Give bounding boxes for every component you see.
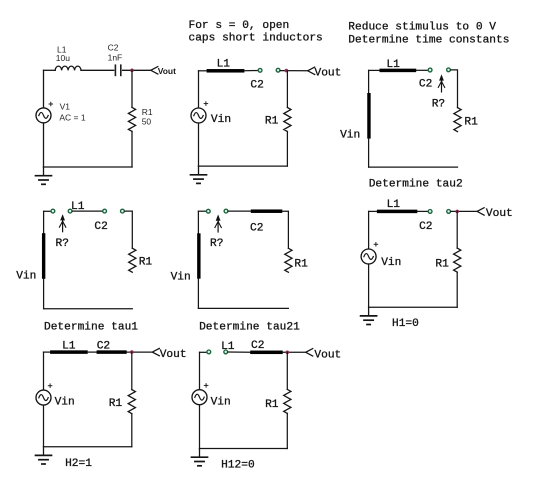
svg-text:C2: C2 — [108, 43, 119, 53]
wire: L1 to C2 terminal — [244, 70, 257, 72]
wire: bottom return net — [198, 307, 288, 309]
svg-text:L1: L1 — [217, 59, 231, 71]
svg-text:L1: L1 — [386, 59, 400, 71]
svg-text:C2: C2 — [250, 223, 263, 235]
resistor R1 — [454, 248, 461, 272]
wire: Vin to ground node — [43, 405, 45, 447]
wire: bottom return net — [200, 448, 288, 450]
inductor L1 — [55, 66, 81, 70]
wire: top-left corner to L1 terminal — [198, 210, 206, 212]
wire: R1 to bottom net — [286, 132, 288, 167]
wire: Vin to ground node — [368, 264, 370, 307]
wire: C2 bar to R1 top — [282, 211, 288, 248]
wire: L1 bar to C2 bar — [88, 351, 97, 353]
wire: Vin bar to bottom net — [197, 279, 199, 309]
svg-text:Reduce stimulus to 0 V: Reduce stimulus to 0 V — [348, 22, 496, 34]
inductor L1 (shorted bar) — [207, 69, 245, 73]
wire: top-left corner to L1 — [369, 210, 378, 212]
svg-text:Vin: Vin — [381, 257, 401, 269]
terminal: C2 open lead 2 — [447, 210, 451, 214]
wire: Vout node down to R1 — [131, 352, 133, 390]
svg-text:H12=0: H12=0 — [221, 459, 255, 471]
inductor L1 (shorted bar) — [50, 350, 88, 354]
wire: left vertical corner to Vin bar — [197, 211, 199, 233]
svg-text:C2: C2 — [251, 340, 264, 352]
voltage source Vin — [361, 249, 376, 264]
svg-text:R1: R1 — [435, 258, 449, 270]
wire: bottom return net — [44, 166, 133, 168]
wire: left vertical corner to Vin bar — [368, 70, 370, 93]
svg-text:R?: R? — [432, 99, 445, 111]
terminal: C2 open lead 2 — [447, 68, 451, 72]
Vin plus polarity mark — [48, 384, 52, 388]
wire: left vertical corner to Vin — [199, 352, 201, 389]
wire: C2 lead to R1 top — [125, 211, 133, 248]
svg-text:R1: R1 — [464, 117, 478, 129]
svg-text:Vout: Vout — [158, 66, 176, 76]
terminal: L1 open lead 1 — [206, 209, 210, 213]
ground — [36, 447, 52, 464]
svg-text:For s = 0, open: For s = 0, open — [189, 20, 290, 32]
node Vout junction dot — [455, 210, 459, 214]
svg-text:R1: R1 — [142, 107, 153, 117]
ground — [191, 166, 207, 183]
resistor R1 — [129, 248, 136, 272]
wire: C2 lead to Vout tap — [280, 70, 307, 72]
wire: R1 to bottom net — [286, 413, 288, 448]
svg-text:C2: C2 — [419, 221, 432, 233]
wire: L1 lead to C2 bar — [228, 210, 251, 212]
wire: top-left corner to L1 — [369, 69, 380, 71]
wire: Vout node down to R1 — [456, 211, 458, 248]
terminal: L1 open lead 2 — [224, 209, 228, 213]
svg-text:Vin: Vin — [16, 270, 36, 282]
terminal: C2 open lead 2 — [121, 209, 125, 213]
terminal: C2 open lead 1 — [428, 210, 432, 214]
wire: L1 lead to C2 bar — [228, 351, 250, 353]
svg-text:H1=0: H1=0 — [392, 318, 419, 330]
wire: C2 bar to Vout tap — [283, 351, 306, 353]
wire: Vin bar to bottom net — [368, 139, 370, 168]
svg-text:R1: R1 — [265, 115, 279, 127]
svg-text:Determine time constants: Determine time constants — [348, 35, 509, 47]
wire: Vout node down to R1 — [286, 352, 288, 389]
svg-text:Determine tau21: Determine tau21 — [199, 322, 300, 334]
wire: C2 bar to Vout tap — [127, 351, 153, 353]
resistor R1 — [128, 107, 135, 131]
voltage source Vin — [192, 390, 207, 405]
svg-text:Determine tau2: Determine tau2 — [369, 178, 463, 190]
wire: bottom return net — [199, 165, 288, 167]
svg-text:10u: 10u — [56, 53, 70, 63]
Vout output tap arrow — [152, 348, 159, 355]
inductor L1 (shorted bar) — [380, 69, 417, 73]
wire: left vertical corner to Vin — [43, 352, 45, 390]
voltage source V1 — [36, 108, 51, 123]
svg-text:Vout: Vout — [160, 349, 187, 361]
capacitor C2 — [115, 65, 120, 75]
source Vin zeroed (short bar) — [42, 233, 45, 279]
svg-text:L1: L1 — [62, 341, 76, 353]
svg-text:R1: R1 — [265, 399, 279, 411]
node Vout junction dot — [130, 69, 134, 73]
probe arrow R? looking into L1 port — [215, 215, 221, 233]
svg-text:Vin: Vin — [340, 130, 360, 142]
wire: C2 lead to R1 top — [451, 70, 458, 108]
wire: Vin to ground node — [199, 405, 201, 449]
Vout output tap arrow — [477, 208, 484, 215]
svg-text:C2: C2 — [250, 80, 263, 92]
wire: top-left corner to L1 — [44, 351, 51, 353]
Vin plus polarity mark — [204, 102, 208, 106]
terminal: C2 open lead 1 — [103, 209, 107, 213]
capacitor C2 (shorted bar) — [97, 350, 127, 354]
caption: reduce stimulus instructions — [348, 22, 509, 47]
svg-text:C2: C2 — [419, 79, 432, 91]
svg-text:Vout: Vout — [486, 208, 513, 220]
wire: node Vout down to R1 — [131, 70, 133, 107]
svg-text:V1: V1 — [60, 102, 71, 112]
wire: Vout node down to R1 — [286, 71, 288, 108]
svg-text:R?: R? — [56, 238, 69, 250]
Vout output tap arrow — [308, 67, 315, 74]
terminal: C2 open lead 2 — [276, 68, 280, 72]
svg-text:caps short inductors: caps short inductors — [189, 33, 323, 45]
wire: R1 to bottom net — [456, 272, 458, 307]
voltage source Vin — [36, 390, 51, 405]
svg-text:AC = 1: AC = 1 — [59, 112, 85, 122]
wire: L1 lead to C2 terminal — [72, 210, 102, 212]
svg-text:Vin: Vin — [55, 396, 75, 408]
wire: top-left corner to L1 terminal — [200, 351, 207, 353]
capacitor C2 (shorted bar) — [250, 351, 283, 355]
svg-text:50: 50 — [142, 117, 152, 127]
resistor R1 — [128, 390, 135, 414]
wire: bottom return net — [369, 166, 458, 168]
svg-text:Vin: Vin — [211, 114, 231, 126]
wire: bottom return net — [369, 306, 458, 308]
terminal: L1 open lead 2 — [224, 350, 228, 354]
svg-text:R1: R1 — [294, 258, 308, 270]
terminal: L1 open lead 1 — [51, 209, 55, 213]
wire: top-left corner to L1 terminal — [44, 210, 51, 212]
wire: left vertical corner to Vin bar — [43, 211, 45, 233]
resistor R1 — [284, 389, 291, 413]
resistor R1 — [454, 108, 461, 132]
node Vout junction dot — [286, 351, 290, 355]
wire: left vertical corner to Vin — [368, 211, 370, 249]
wire: R1 to bottom net — [131, 414, 133, 447]
inductor L1 (shorted bar) — [377, 210, 417, 214]
wire: L1 to C2 terminal — [417, 210, 427, 212]
svg-text:H2=1: H2=1 — [65, 458, 92, 470]
capacitor C2 (shorted bar) — [251, 209, 282, 213]
svg-text:R?: R? — [210, 238, 223, 250]
V1 plus polarity mark — [49, 102, 53, 106]
terminal: L1 open lead 2 — [68, 209, 72, 213]
svg-text:C2: C2 — [97, 340, 110, 352]
terminal: C2 open lead 1 — [258, 68, 262, 72]
wire: top net, source corner to inductor L1 — [44, 69, 56, 71]
resistor R1 — [284, 108, 291, 132]
source Vin zeroed (short bar) — [367, 93, 370, 139]
svg-text:C2: C2 — [94, 221, 107, 233]
terminal: C2 open lead 1 — [428, 68, 432, 72]
caption: for s = 0 instructions — [189, 20, 323, 45]
wire: C2 lead to Vout tap — [451, 210, 477, 212]
ground — [192, 449, 208, 466]
terminal: L1 open lead 1 — [207, 350, 211, 354]
svg-text:R1: R1 — [139, 257, 153, 269]
wire: Vin bar to bottom net — [43, 279, 45, 309]
probe arrow R? looking into L1 port — [59, 214, 65, 232]
svg-text:R1: R1 — [109, 398, 123, 410]
wire: L1 to C2 — [81, 69, 114, 71]
svg-text:1nF: 1nF — [108, 53, 123, 63]
wire: bottom return net — [44, 446, 132, 448]
wire: bottom return net — [44, 308, 133, 310]
wire: top-left corner to L1 — [199, 70, 208, 72]
wire: left vertical, top corner to V1 — [43, 70, 45, 108]
svg-text:Vout: Vout — [315, 68, 342, 80]
ground — [361, 307, 377, 324]
probe arrow R? looking into C2 port — [438, 74, 444, 92]
source Vin zeroed (short bar) — [197, 233, 200, 278]
svg-text:Vin: Vin — [171, 272, 191, 284]
node Vout junction dot — [130, 350, 134, 354]
wire: C2 to Vout tap — [123, 69, 151, 71]
resistor R1 — [285, 248, 292, 272]
svg-text:L1: L1 — [387, 199, 401, 211]
wire: V1 to ground node — [43, 123, 45, 167]
svg-text:Vin: Vin — [211, 397, 231, 409]
Vout output tap arrow — [151, 67, 158, 74]
wire: left vertical corner to Vin — [198, 71, 200, 108]
voltage source Vin — [191, 108, 206, 123]
svg-text:Determine tau1: Determine tau1 — [44, 322, 138, 334]
svg-text:Vout: Vout — [314, 349, 341, 361]
node Vout junction dot — [285, 69, 289, 73]
wire: L1 to C2 terminal — [416, 69, 428, 71]
ground — [36, 167, 52, 184]
Vin plus polarity mark — [204, 384, 208, 388]
wire: R1 to bottom net — [131, 131, 133, 167]
wire: Vin to ground node — [198, 123, 200, 166]
Vin plus polarity mark — [374, 243, 378, 247]
Vout output tap arrow — [306, 349, 313, 356]
